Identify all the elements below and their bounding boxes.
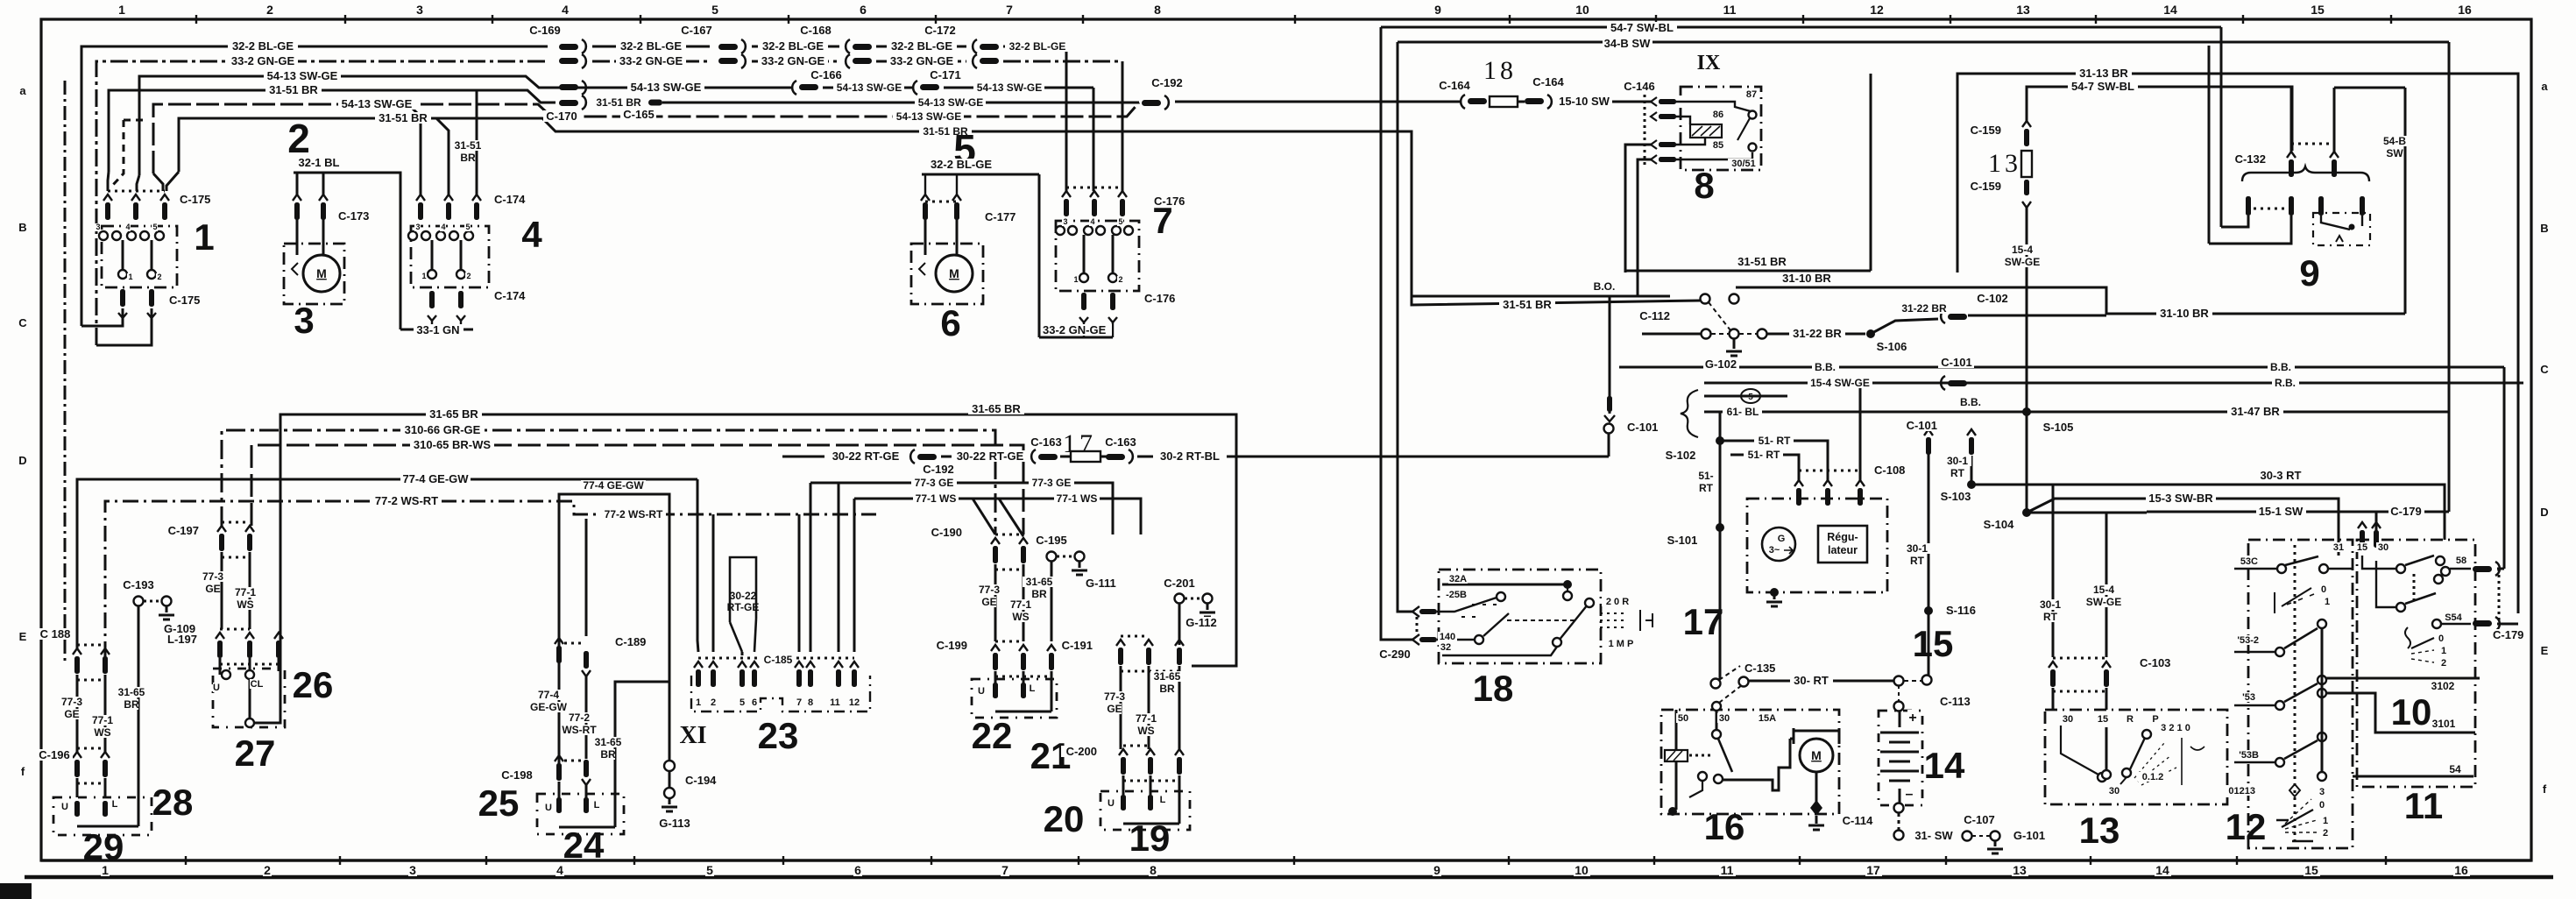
ground G-101 [1987, 849, 2003, 853]
svg-text:RT-GE: RT-GE [727, 601, 760, 613]
svg-text:3~: 3~ [1769, 545, 1780, 556]
wire 31-51 BR bus row 4 [109, 90, 556, 172]
svg-text:C-159: C-159 [1971, 124, 2001, 137]
wire 51-RT column comp 17 [1719, 412, 1722, 679]
svg-text:77-3: 77-3 [61, 696, 82, 708]
svg-text:GE-GW: GE-GW [530, 701, 568, 713]
svg-text:lateur: lateur [1828, 544, 1858, 556]
label C-177 [984, 211, 1020, 223]
connector C-102 [1941, 309, 1945, 323]
connector C-192 [1142, 100, 1161, 106]
wire 33-1 GN [400, 329, 473, 331]
grid column number bottom 9 [1433, 864, 1441, 876]
comp12 bottom fan [2289, 784, 2300, 796]
svg-text:11: 11 [2404, 785, 2443, 826]
wire 30-RT to C-113 [1894, 676, 1904, 686]
svg-text:30/51: 30/51 [1731, 159, 1756, 169]
label 31-65 comp24 [591, 737, 625, 747]
wire 15-4 SW-GE comp13 [2105, 513, 2108, 657]
svg-text:–: – [1906, 787, 1914, 802]
svg-text:310-65 BR-WS: 310-65 BR-WS [414, 438, 491, 451]
vertical 2795 [2448, 42, 2451, 512]
wire 54-8 SW corner [2334, 87, 2405, 89]
svg-text:23: 23 [758, 715, 799, 756]
svg-text:12: 12 [2226, 806, 2267, 847]
connector C-188 [73, 648, 81, 655]
svg-text:77-3: 77-3 [979, 584, 1000, 596]
contact C-135 b [1739, 677, 1749, 687]
label C-146 [1621, 81, 1657, 92]
svg-text:BR: BR [1159, 683, 1175, 695]
component 1 pin 5 [160, 195, 169, 201]
svg-text:54-13 SW-GE: 54-13 SW-GE [977, 81, 1042, 94]
connector C-166 pin [792, 81, 796, 95]
label C-112 [1634, 310, 1670, 322]
label C-107 [1961, 814, 1997, 825]
contact C-112 c [1702, 329, 1711, 339]
wire 32-2 BL-GE to comp 1 pin 1 [81, 308, 123, 326]
grid row letter right E [2540, 645, 2549, 656]
svg-text:16: 16 [2454, 863, 2468, 877]
label 77-3 GE comp28 [59, 697, 86, 707]
wire 31-22 BR [1767, 333, 1865, 336]
wire battery plus to C-113 [1898, 685, 1900, 701]
connector 58 [2473, 566, 2492, 572]
svg-text:15: 15 [2311, 3, 2325, 17]
label 77-3 GE b [1029, 478, 1074, 488]
contact C-113 [1922, 676, 1932, 685]
dotted joint box [1644, 95, 1646, 166]
svg-text:15-1 SW: 15-1 SW [2259, 505, 2304, 518]
label C-192 [1150, 77, 1185, 88]
wire 31-51 BR mid upper [1624, 270, 1871, 273]
label 77-2 WS-RT [372, 495, 442, 506]
svg-text:C-146: C-146 [1624, 80, 1654, 93]
svg-text:9: 9 [1434, 3, 1441, 17]
label 54-13 SW-GE row3 [264, 70, 341, 81]
label 31-22 BR [1789, 328, 1845, 339]
label C-163 a [1029, 436, 1065, 448]
label C-159 lower [1965, 181, 2001, 192]
wire into C-112 row [1642, 333, 1701, 336]
svg-text:f: f [21, 765, 25, 778]
svg-text:WS: WS [1137, 725, 1154, 737]
connector C-101 arrow down [1609, 296, 1611, 414]
svg-text:77-4 GE-GW: 77-4 GE-GW [402, 472, 469, 485]
label C-174 lower [493, 290, 529, 301]
svg-text:32-2 BL-GE: 32-2 BL-GE [620, 39, 682, 53]
svg-text:0: 0 [2438, 634, 2444, 644]
label 3101 [2431, 718, 2458, 729]
connector C-169 pin a [559, 44, 578, 50]
label U comp19 [1108, 798, 1115, 808]
component 24 box [537, 794, 624, 834]
svg-text:20: 20 [1044, 798, 1085, 839]
grid column number top 9 [1433, 4, 1442, 16]
svg-text:310-66 GR-GE: 310-66 GR-GE [405, 423, 481, 436]
label 54-13 SW-GE row5 [338, 98, 415, 110]
grid column number bottom 10 [1574, 864, 1590, 876]
svg-text:C-192: C-192 [923, 463, 953, 476]
label C-173 [337, 210, 373, 222]
svg-text:f: f [2543, 782, 2547, 796]
label C-179 top [2388, 506, 2424, 517]
label 32-2 BL-GE comp6 [926, 159, 996, 170]
component 1 contact circles [99, 231, 108, 240]
wire 31-10 BR upper [1736, 287, 2405, 314]
wire row6 to comp1 pin 5 [166, 172, 179, 191]
svg-text:R.B.: R.B. [2275, 377, 2296, 389]
label 53 [2236, 692, 2255, 702]
connector C-170 pin a [559, 84, 578, 90]
wire 31-51 BR into C-112 [1412, 131, 1700, 305]
svg-text:C-112: C-112 [1639, 309, 1670, 322]
svg-text:1: 1 [194, 216, 214, 258]
component 4 pin outlets down [428, 315, 436, 321]
component 4 switch unit [411, 226, 489, 287]
svg-text:3: 3 [2319, 787, 2325, 797]
label 25B [1444, 590, 1468, 599]
connector C-159 upper [2022, 121, 2031, 127]
svg-text:3: 3 [416, 3, 423, 17]
wires component 4 pins up [408, 104, 421, 195]
connector C-189 pin [582, 670, 591, 676]
svg-text:77-1: 77-1 [92, 714, 113, 726]
svg-text:54-7 SW-BL: 54-7 SW-BL [1610, 21, 1674, 34]
component 1 pin 4 [131, 195, 140, 201]
component 1 lower contacts [118, 270, 127, 279]
grid column number top 6 [859, 4, 867, 16]
grid column number bottom 11 [1719, 864, 1736, 876]
label S-101 [1665, 534, 1701, 546]
label CL comp26 [250, 679, 263, 689]
svg-text:31-65 BR: 31-65 BR [429, 407, 478, 421]
wires to regulator pins [1720, 441, 1828, 480]
svg-text:14: 14 [2163, 3, 2177, 17]
svg-text:33-2 GN-GE: 33-2 GN-GE [761, 54, 825, 67]
grid column number top 16 [2457, 4, 2473, 16]
svg-text:C-103: C-103 [2140, 656, 2170, 669]
svg-text:13: 13 [2013, 863, 2027, 877]
comp12 row 53B [2234, 761, 2275, 763]
svg-text:0.1.2: 0.1.2 [2142, 772, 2163, 782]
svg-text:29: 29 [83, 826, 124, 867]
svg-text:C-171: C-171 [930, 68, 960, 81]
svg-text:31-51 BR: 31-51 BR [1737, 255, 1787, 268]
Regulateur box [1818, 526, 1867, 563]
svg-text:15-4: 15-4 [2093, 584, 2114, 596]
connector C-168 pin a [846, 39, 850, 53]
comp16 lever [1718, 739, 1732, 772]
svg-text:'53-2: '53-2 [2237, 635, 2259, 646]
grid column number bottom 4 [556, 864, 564, 876]
wire 31-65 BR [280, 414, 1236, 666]
svg-text:C: C [18, 316, 27, 329]
label battery minus [1904, 786, 1914, 800]
component 8 internals [1690, 124, 1722, 138]
label L comp24 [593, 800, 601, 810]
connector C-191 [1116, 640, 1125, 646]
connector C-171 pin [913, 81, 917, 95]
grid row letter left D [18, 455, 27, 466]
label 33-2 GN-GE [228, 55, 298, 67]
comp12 row 53C [2234, 568, 2276, 570]
svg-text:51- RT: 51- RT [1759, 435, 1791, 447]
component 19 box [1100, 791, 1190, 830]
junction S-105 [2022, 407, 2031, 416]
label C-135 [1744, 662, 1780, 674]
svg-text:86: 86 [1713, 110, 1723, 120]
symbol IX [1695, 50, 1723, 71]
svg-text:77-1: 77-1 [1136, 712, 1157, 725]
svg-text:33-1 GN: 33-1 GN [416, 323, 459, 336]
svg-text:C-101: C-101 [1627, 421, 1658, 434]
label 54-7 SW-BL [1607, 22, 1677, 33]
label C-172 [922, 25, 958, 36]
svg-text:1: 1 [1073, 275, 1078, 284]
label G-102 [1703, 358, 1739, 370]
wire 32-1 BL [297, 173, 473, 329]
svg-text:C-170: C-170 [546, 110, 577, 123]
wire 33-2 GN-GE comp7 bottom [1038, 174, 1041, 337]
component 19 pin L [1148, 795, 1153, 811]
junction S-116 [1924, 606, 1933, 615]
label 30-22 RT-GE a [827, 450, 904, 462]
comp13 internals [2061, 726, 2098, 775]
svg-text:1: 1 [2323, 816, 2328, 826]
svg-text:31-65: 31-65 [118, 686, 145, 698]
svg-text:L: L [1030, 683, 1036, 694]
component 28 pin U [74, 801, 80, 817]
wire 31-13 BR drop [1870, 74, 1872, 271]
grid column number bottom 12 [1865, 864, 1882, 876]
grid column number top 14 [2162, 4, 2179, 16]
svg-text:L: L [112, 799, 118, 810]
svg-text:54-13 SW-GE: 54-13 SW-GE [631, 81, 702, 94]
svg-text:30-1: 30-1 [1907, 542, 1928, 555]
svg-text:BR: BR [460, 152, 476, 164]
wires C-197 down [221, 552, 223, 629]
svg-text:1: 1 [421, 272, 426, 280]
label 0 row1 [2320, 584, 2328, 594]
svg-text:C-290: C-290 [1379, 648, 1410, 661]
svg-text:32-1 BL: 32-1 BL [299, 156, 340, 169]
svg-text:2: 2 [157, 273, 161, 281]
label S-103 [1938, 491, 1974, 502]
svg-text:WS: WS [237, 598, 253, 611]
connector C-199 [991, 645, 1000, 651]
svg-text:77-2 WS-RT: 77-2 WS-RT [605, 508, 663, 520]
label C-194 [684, 775, 720, 786]
svg-text:30-22 RT-GE: 30-22 RT-GE [957, 449, 1024, 463]
label C-197 [163, 525, 199, 536]
label 34-8 SW [1603, 38, 1652, 49]
wire 31-13 BR [1957, 74, 2518, 613]
label G-113 [657, 818, 693, 829]
svg-text:C-195: C-195 [1036, 534, 1066, 547]
label C-167 [678, 25, 714, 36]
svg-text:12: 12 [849, 697, 860, 708]
grid column number top 7 [1005, 4, 1014, 16]
svg-text:C-189: C-189 [615, 635, 646, 648]
svg-text:4: 4 [1090, 217, 1094, 226]
wire 32-2 BL-GE bus row 1 [81, 46, 548, 326]
label C-290 [1377, 648, 1413, 660]
corner artifact bottom-left [0, 883, 32, 899]
svg-text:28: 28 [152, 782, 194, 823]
label 77-1 WS comp28 [89, 715, 117, 726]
contact C-135 a [1711, 679, 1721, 689]
pins C-179 into comp10 [2358, 522, 2367, 528]
grid column number top 2 [265, 4, 274, 16]
wire to pin12 [853, 499, 856, 652]
symbol XI [677, 720, 709, 745]
svg-text:16: 16 [2458, 3, 2472, 17]
svg-text:C-166: C-166 [810, 68, 841, 81]
component 3 pins [293, 195, 301, 201]
svg-text:SW-GE: SW-GE [2086, 596, 2121, 608]
svg-text:13: 13 [2016, 3, 2030, 17]
svg-text:31-51 BR: 31-51 BR [379, 111, 428, 124]
svg-text:15-4 SW-GE: 15-4 SW-GE [1810, 377, 1870, 389]
svg-text:30- RT: 30- RT [1794, 674, 1829, 687]
svg-text:77-3 GE: 77-3 GE [1032, 477, 1072, 489]
label 31-47 BR [2227, 406, 2283, 417]
junction S-104 + wire 15-3 SW-BR [2022, 508, 2031, 517]
comp12 fan lever [2282, 810, 2313, 827]
svg-text:31-51 BR: 31-51 BR [596, 96, 641, 109]
component 22 pin U [993, 683, 998, 698]
label 31-22 BR b [1898, 303, 1950, 314]
wire C-201 down [1178, 604, 1181, 645]
contact C-112 e [1758, 329, 1767, 339]
svg-text:G-101: G-101 [2013, 829, 2045, 842]
wire comp26 to 31-65 [255, 550, 280, 723]
component 23 harness funnel 30-22 RT-GE [730, 557, 756, 652]
grid column number bottom 13 [2012, 864, 2028, 876]
svg-text:32A: 32A [1449, 574, 1467, 584]
label 31-65 BR [426, 408, 482, 420]
regulator pin 2 [1823, 480, 1832, 486]
wires regulator pins into box [1798, 499, 1800, 506]
wire 77-2 to pin2 [712, 514, 715, 652]
junction comp16 [1668, 807, 1677, 816]
label L comp19 [1159, 795, 1167, 804]
wire 77-2 WS-RT branch [586, 519, 692, 636]
component 26 contact a [222, 670, 230, 679]
svg-text:L: L [1160, 795, 1166, 805]
svg-text:15-10 SW: 15-10 SW [1559, 95, 1610, 108]
svg-text:C-163: C-163 [1030, 435, 1061, 449]
wire 77-4 to pin1 [697, 479, 698, 652]
wire to pin3 [1859, 383, 1862, 480]
wire row4 to comp1 pin 3 [108, 172, 109, 191]
connector C-167 pin a [718, 44, 738, 50]
svg-text:S-104: S-104 [1984, 518, 2014, 531]
wire row3 to comp1 pin 4 [137, 175, 139, 191]
svg-text:C-108: C-108 [1874, 464, 1905, 477]
svg-text:14: 14 [1924, 745, 1965, 786]
label 77-1 WS a [913, 493, 959, 504]
wire 32-2 BL-GE drop to component 7 [1065, 46, 1068, 191]
label S-102 [1663, 449, 1699, 461]
frame tick marks [195, 15, 197, 24]
label 54-8 SW [2381, 136, 2409, 146]
grid row letter left F [18, 766, 27, 777]
svg-text:54-13 SW-GE: 54-13 SW-GE [342, 97, 413, 110]
label 01213 [2225, 786, 2255, 796]
ground G-113 [662, 807, 677, 811]
svg-text:G-111: G-111 [1086, 577, 1116, 590]
label L comp28 [111, 799, 119, 809]
svg-text:XI: XI [679, 722, 706, 749]
wire to pin8 [810, 483, 812, 652]
label U comp28 [61, 802, 69, 811]
wire to pin11 [838, 483, 840, 652]
label 85 [1711, 140, 1724, 150]
wires 77-3 GE / 77-1 WS feeds [810, 483, 1113, 534]
svg-text:10: 10 [1575, 3, 1589, 17]
junction S-101 [1716, 523, 1724, 532]
grid column number bottom 16 [2453, 864, 2470, 876]
svg-text:B: B [18, 221, 26, 234]
label R.B. [2272, 378, 2299, 388]
svg-text:31- SW: 31- SW [1914, 829, 1953, 842]
svg-text:1: 1 [2325, 597, 2330, 607]
grid column number bottom 3 [408, 864, 417, 876]
svg-text:GE: GE [1107, 703, 1122, 715]
grid column number top 8 [1153, 4, 1162, 16]
label C-200 [1061, 746, 1097, 757]
grid column number top 1 [117, 4, 126, 16]
svg-text:C-168: C-168 [800, 24, 831, 37]
svg-text:B.O.: B.O. [1594, 280, 1616, 293]
label 1MP [1605, 639, 1636, 648]
grid column number bottom 6 [853, 864, 862, 876]
svg-text:32-2 BL-GE: 32-2 BL-GE [232, 39, 294, 53]
wire 54-7 SW-BL [1381, 26, 2221, 29]
label C-195 [1034, 534, 1070, 546]
comp16 motor [1790, 738, 1794, 740]
label U comp22 [978, 686, 986, 696]
label C-114 [1840, 815, 1876, 826]
svg-text:8: 8 [808, 697, 813, 708]
label B.B. c [1957, 397, 1985, 407]
svg-text:C-164: C-164 [1532, 75, 1564, 88]
svg-text:17: 17 [1866, 863, 1880, 877]
svg-text:32-2 BL-GE: 32-2 BL-GE [931, 158, 992, 171]
label C-132 [2230, 153, 2266, 165]
svg-text:2: 2 [466, 272, 471, 280]
wire 54-8 SW drop [2404, 88, 2407, 314]
dotted grid [1600, 613, 1624, 627]
svg-text:30-1: 30-1 [1947, 455, 1968, 467]
svg-text:RT: RT [2043, 611, 2058, 623]
label 15-4 SW-GE v [2009, 244, 2036, 255]
component 28 box [53, 797, 152, 835]
label B.B. a [1812, 362, 1839, 372]
component 3 motor [303, 255, 340, 292]
component 15 alternator box [1747, 499, 1887, 592]
svg-text:54-13 SW-GE: 54-13 SW-GE [837, 81, 902, 94]
label C-108 [1873, 464, 1909, 476]
component 4 pin 4 [444, 195, 453, 201]
svg-text:2 0 R: 2 0 R [1606, 597, 1629, 607]
connector S54 [2473, 620, 2492, 626]
svg-text:3: 3 [415, 223, 420, 231]
svg-text:C-199: C-199 [937, 639, 967, 652]
label C-199 [931, 640, 967, 651]
